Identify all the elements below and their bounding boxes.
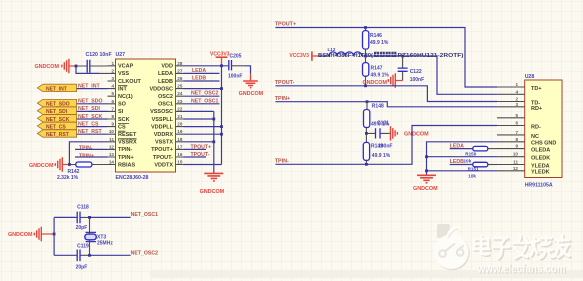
- svg-text:TPOUT+: TPOUT+: [275, 22, 296, 28]
- svg-text:25MHz: 25MHz: [97, 240, 113, 246]
- U27 right pin names: [149, 64, 173, 169]
- ground GNDCOM below chip: [200, 173, 225, 195]
- svg-text:20: 20: [177, 122, 183, 127]
- svg-text:GNDCOM: GNDCOM: [34, 64, 59, 70]
- svg-text:C121: C121: [377, 121, 389, 127]
- capacitor C122: [398, 56, 425, 83]
- svg-text:GNDCOM: GNDCOM: [8, 232, 33, 238]
- svg-text:OLEDK: OLEDK: [531, 156, 550, 162]
- wire TPIN- to RD-: [275, 126, 497, 165]
- wire TPOUT- to TD-: [275, 86, 497, 102]
- svg-text:U28: U28: [525, 74, 535, 80]
- svg-text:1: 1: [515, 82, 518, 87]
- svg-text:C118: C118: [77, 205, 89, 211]
- svg-text:2: 2: [515, 97, 518, 102]
- wire node to C122 and TD center tap: [366, 56, 498, 94]
- svg-text:YLEDA: YLEDA: [531, 163, 550, 169]
- wire VSS vertical bus: [213, 111, 215, 173]
- watermark chinese calligraphy 发: [513, 235, 529, 258]
- node VDD bus top junction: [220, 64, 223, 67]
- svg-text:5: 5: [515, 113, 518, 118]
- svg-text:20pF: 20pF: [76, 225, 88, 231]
- svg-text:R148: R148: [372, 104, 384, 110]
- U28 pin stubs: [497, 87, 525, 171]
- watermark chinese calligraphy 电: [474, 236, 489, 254]
- node crystal ground junction: [53, 233, 56, 236]
- wire VDDOSC pin 25 to VDD bus: [184, 88, 222, 90]
- watermark logo circle: [434, 226, 470, 270]
- svg-text:100nF: 100nF: [228, 74, 242, 80]
- svg-text:10: 10: [109, 129, 115, 134]
- svg-text:C122: C122: [410, 69, 422, 75]
- svg-text:TPIN+: TPIN+: [79, 153, 94, 159]
- svg-text:100nF: 100nF: [378, 143, 392, 149]
- wire TPIN+ to RD+: [275, 102, 497, 107]
- U27 right pin numbers: [177, 61, 183, 165]
- svg-text:1: 1: [111, 61, 114, 66]
- svg-text:10k: 10k: [468, 173, 476, 178]
- svg-text:4: 4: [111, 84, 114, 89]
- wire crystal riser: [89, 217, 91, 255]
- svg-text:YLEDK: YLEDK: [531, 170, 550, 176]
- wire YLEDK pin 12: [427, 170, 498, 172]
- resistor R147: [363, 56, 390, 86]
- wire OLEDK pin 10: [427, 156, 498, 158]
- node pin 10 junction: [425, 155, 428, 158]
- flag NET_RST: [37, 129, 102, 138]
- svg-text:5: 5: [111, 91, 114, 96]
- wire NET_INT to pin 4: [77, 88, 108, 90]
- svg-text:100nF: 100nF: [410, 77, 424, 83]
- wire CHS GND pin 8 and LED ground bus: [427, 142, 498, 175]
- svg-text:C119: C119: [77, 243, 89, 249]
- node R146 top junction: [364, 26, 367, 29]
- power port VCC3V3 mid: [289, 51, 319, 60]
- svg-text:TPOUT+: TPOUT+: [151, 147, 173, 153]
- node OSC2 junction: [88, 254, 91, 257]
- node VCAP junction: [75, 65, 78, 68]
- svg-text:TPIN-: TPIN-: [79, 146, 93, 152]
- U27 pin stubs left 1-14: [108, 66, 116, 165]
- resistor R150: [464, 146, 498, 163]
- svg-text:R147: R147: [371, 66, 383, 72]
- svg-text:22: 22: [177, 106, 183, 111]
- resistor R142: [57, 162, 108, 181]
- capacitor C120: [86, 52, 112, 73]
- svg-text:RBIAS: RBIAS: [118, 162, 135, 168]
- svg-text:OLEDA: OLEDA: [531, 148, 550, 154]
- svg-text:R151: R151: [468, 167, 479, 172]
- svg-text:SO: SO: [118, 102, 127, 108]
- ground GNDCOM crystal: [8, 227, 54, 241]
- svg-text:GNDCOM: GNDCOM: [404, 131, 429, 137]
- wire NET_OSC2 pin 24: [184, 95, 220, 97]
- svg-text:NET_OSC1: NET_OSC1: [131, 212, 159, 218]
- resistor R148: [364, 102, 390, 134]
- node pin 25 junction: [220, 87, 223, 90]
- svg-text:11: 11: [109, 137, 114, 142]
- svg-text:CLKOUT: CLKOUT: [118, 79, 142, 85]
- flag NET_SDI: [37, 106, 100, 115]
- svg-text:13: 13: [109, 152, 115, 157]
- node pin 12 junction: [425, 169, 428, 172]
- wire VSSPLL pin 21: [184, 118, 214, 120]
- wire VDDRX pin 19: [184, 133, 222, 135]
- svg-text:C205: C205: [230, 53, 242, 59]
- connector U28 HR911105A body: [525, 74, 562, 189]
- wire NET_RST to pin 10: [77, 133, 108, 135]
- svg-text:TD+: TD+: [531, 86, 542, 92]
- node pin 20 junction: [220, 125, 223, 128]
- svg-text:GNDCOM: GNDCOM: [200, 189, 225, 195]
- svg-text:SCK: SCK: [118, 117, 130, 123]
- svg-text:7: 7: [515, 130, 518, 135]
- svg-text:16: 16: [177, 152, 183, 157]
- watermark chinese calligraphy 烧: [530, 236, 553, 258]
- node RBIAS junction: [68, 163, 71, 166]
- svg-text:SI: SI: [118, 109, 124, 115]
- resistor R149: [363, 133, 390, 164]
- svg-text:8: 8: [515, 137, 518, 142]
- svg-text:U27: U27: [116, 52, 126, 58]
- svg-text:9: 9: [515, 144, 518, 149]
- svg-text:10: 10: [513, 152, 519, 157]
- node pin 19 junction: [220, 133, 223, 136]
- wire OSC2 row: [54, 254, 75, 256]
- node R149 bottom junction: [365, 163, 368, 166]
- svg-text:17: 17: [177, 144, 183, 149]
- wire TPOUT- pin 16: [184, 156, 207, 158]
- capacitor C205: [228, 53, 242, 79]
- svg-text:19: 19: [177, 129, 183, 134]
- svg-text:12: 12: [513, 166, 519, 171]
- power port VCC3V3 top: [210, 52, 230, 64]
- wire VDD pin 28 to C205: [184, 65, 226, 67]
- U27 left pin names: [118, 64, 142, 169]
- svg-text:HR911105A: HR911105A: [525, 183, 553, 189]
- ground GNDCOM at C205: [239, 81, 264, 97]
- svg-text:R146: R146: [370, 33, 382, 39]
- node OSC1 junction: [88, 216, 91, 219]
- watermark chinese calligraphy 子: [493, 238, 509, 258]
- svg-text:49.9 1%: 49.9 1%: [372, 153, 391, 159]
- svg-text:CHS GND: CHS GND: [531, 141, 556, 147]
- op-amp U27 ENC28J60-28 body: [116, 52, 176, 181]
- svg-text:28: 28: [177, 61, 183, 66]
- wire VSSOSC pin 22 to VSS bus: [184, 110, 214, 112]
- svg-text:VSSPLL: VSSPLL: [152, 117, 174, 123]
- svg-text:TPIN-: TPIN-: [118, 147, 133, 153]
- wire NET_SDO to pin 6: [77, 103, 108, 105]
- svg-text:6: 6: [515, 121, 518, 126]
- svg-text:2.32k 1%: 2.32k 1%: [57, 175, 79, 181]
- svg-text:VDDTX: VDDTX: [154, 162, 173, 168]
- svg-text:TPIN+: TPIN+: [118, 155, 134, 161]
- capacitor C121: [366, 128, 390, 138]
- crystal XT3: [85, 232, 114, 246]
- svg-text:VSSRX: VSSRX: [118, 140, 137, 146]
- svg-text:INT: INT: [118, 86, 128, 92]
- wire NET_OSC1 pin 23: [184, 103, 220, 105]
- svg-text:LEDA: LEDA: [158, 71, 173, 77]
- svg-text:RESET: RESET: [118, 132, 137, 138]
- node C121 junction: [365, 132, 368, 135]
- watermark shadow smear: [150, 270, 583, 278]
- svg-text:18: 18: [177, 137, 183, 142]
- wire LEDB pin 26: [184, 80, 220, 82]
- svg-text:20pF: 20pF: [76, 265, 88, 271]
- svg-text:NC(1): NC(1): [118, 94, 133, 100]
- wire VSSTX pin 18: [184, 141, 214, 143]
- svg-text:8: 8: [111, 114, 114, 119]
- wire TPIN- pin 12: [75, 148, 108, 150]
- node C122 tap junction: [401, 55, 404, 58]
- svg-text:GNDCOM: GNDCOM: [413, 186, 438, 192]
- svg-text:3: 3: [111, 76, 114, 81]
- node R148 top junction: [366, 100, 369, 103]
- svg-text:2: 2: [111, 68, 114, 73]
- svg-text:VSSTX: VSSTX: [155, 140, 173, 146]
- ground GNDCOM top-left: [34, 59, 76, 73]
- svg-text:9: 9: [111, 122, 114, 127]
- flag NET_CS: [37, 121, 99, 130]
- flag NET_SCK: [37, 114, 102, 123]
- svg-text:TPOUT-: TPOUT-: [153, 155, 173, 161]
- wire LEDA pin 27: [184, 72, 220, 74]
- svg-text:11: 11: [513, 160, 518, 165]
- svg-text:49.9 1%: 49.9 1%: [371, 73, 390, 79]
- svg-text:24: 24: [177, 91, 183, 96]
- svg-text:CS: CS: [118, 124, 126, 130]
- svg-text:C120: C120: [86, 52, 99, 58]
- svg-text:GNDCOM: GNDCOM: [239, 91, 264, 97]
- svg-text:R142: R142: [68, 169, 80, 175]
- flag NET_INT: [37, 83, 100, 92]
- svg-text:23: 23: [177, 99, 183, 104]
- ground GNDCOM LED bus: [413, 175, 438, 192]
- node R147 bottom junction: [364, 84, 367, 87]
- node pin 18 junction: [212, 140, 215, 143]
- watermark chinese calligraphy 友: [555, 235, 569, 257]
- svg-text:GNDCOM: GNDCOM: [29, 163, 54, 169]
- svg-text:RD-: RD-: [531, 124, 541, 130]
- svg-text:OSC2: OSC2: [158, 94, 173, 100]
- svg-text:VSS: VSS: [118, 71, 129, 77]
- svg-text:10nF: 10nF: [100, 52, 112, 58]
- wire NET_CS to pin 9: [77, 126, 108, 128]
- U27 left pin numbers: [109, 61, 115, 165]
- U28 pin names: [531, 86, 556, 176]
- svg-text:NET_OSC2: NET_OSC2: [131, 251, 159, 257]
- wire VSSRX pin 11 to ground riser: [69, 142, 107, 165]
- ground GNDCOM at C122: [362, 73, 402, 87]
- svg-text:25: 25: [177, 84, 183, 89]
- inductor L12: [328, 47, 366, 56]
- flag NET_SDO: [37, 99, 102, 108]
- wire TPIN+ pin 13: [75, 156, 108, 158]
- svg-text:21: 21: [177, 114, 183, 119]
- svg-text:R150: R150: [465, 151, 476, 156]
- svg-text:TPIN-: TPIN-: [275, 158, 289, 164]
- ground GNDCOM at RBIAS: [29, 157, 69, 171]
- ground GNDCOM at C121: [391, 126, 430, 140]
- svg-text:VDDOSC: VDDOSC: [149, 86, 173, 92]
- svg-text:RD+: RD+: [531, 106, 542, 112]
- wire VCC3V3 to L12: [320, 55, 329, 57]
- wire LEDB to R151: [450, 164, 473, 166]
- svg-text:15: 15: [177, 160, 183, 165]
- svg-text:L12: L12: [328, 47, 336, 52]
- svg-text:TPOUT-: TPOUT-: [275, 80, 295, 86]
- wire VDD vertical bus: [221, 64, 223, 165]
- resistor R151: [468, 162, 497, 178]
- svg-text:27: 27: [177, 68, 183, 73]
- resistor R146: [363, 28, 389, 57]
- node pin 21 junction: [212, 118, 215, 121]
- svg-text:XT3: XT3: [97, 234, 106, 240]
- svg-text:VSSOSC: VSSOSC: [150, 109, 173, 115]
- svg-text:NET_INT: NET_INT: [46, 86, 67, 92]
- wire NET_SCK to pin 8: [77, 118, 108, 120]
- svg-text:6: 6: [111, 99, 114, 104]
- wire LEDA to R150: [450, 148, 473, 150]
- capacitor C119: [76, 243, 89, 270]
- svg-text:4: 4: [515, 89, 518, 94]
- wire VDDPLL pin 20: [184, 126, 222, 128]
- svg-text:VCAP: VCAP: [118, 64, 134, 70]
- svg-text:ENC28J60-28: ENC28J60-28: [116, 175, 149, 181]
- U27 pin stubs right 28-15: [176, 66, 184, 165]
- svg-text:VDD: VDD: [161, 64, 173, 70]
- wire TPOUT+ to TD+: [275, 28, 497, 88]
- svg-text:26: 26: [177, 76, 183, 81]
- watermark chinese calligraphy shadow: [475, 236, 570, 259]
- wire C205 to ground: [232, 65, 245, 67]
- svg-text:NET_RST: NET_RST: [46, 132, 69, 138]
- svg-text:VCC3V3: VCC3V3: [289, 53, 309, 59]
- capacitor C118: [76, 205, 89, 231]
- U28 pin numbers: [513, 82, 519, 171]
- wire VCAP node: [76, 66, 100, 73]
- svg-text:3: 3: [515, 102, 518, 107]
- svg-text:VDDRX: VDDRX: [154, 132, 174, 138]
- svg-text:OSC1: OSC1: [158, 102, 173, 108]
- svg-text:10k: 10k: [464, 158, 472, 163]
- svg-text:49.9 1%: 49.9 1%: [370, 40, 389, 46]
- svg-text:14: 14: [109, 160, 115, 165]
- wire NET_SDI to pin 7: [77, 110, 108, 112]
- wire OSC1 row: [54, 216, 75, 218]
- svg-text:12: 12: [109, 144, 115, 149]
- svg-text:NC: NC: [531, 134, 539, 140]
- wire VDDTX pin 15 to VDD bus: [184, 164, 222, 166]
- wire TPOUT+ pin 17: [184, 148, 207, 150]
- svg-text:LEDB: LEDB: [158, 79, 173, 85]
- svg-text:www.elecfans.com: www.elecfans.com: [477, 263, 566, 276]
- node L12/R146/R147 junction: [364, 55, 367, 58]
- svg-text:7: 7: [111, 106, 114, 111]
- svg-text:VDDPLL: VDDPLL: [151, 124, 174, 130]
- wire crystal left riser: [53, 218, 55, 256]
